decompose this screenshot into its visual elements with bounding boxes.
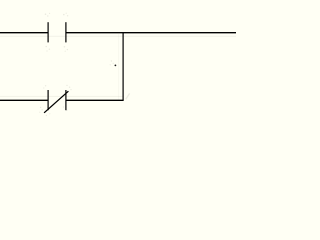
contact (normally closed), branch rung (44, 90, 68, 113)
contact (normally open), top rung (48, 22, 66, 42)
wire: top rung, NO contact to right edge (66, 32, 236, 34)
insertion point marker (small dot left of branch wire) (115, 65, 117, 67)
wire: top rung, left rail to NO contact (0, 32, 48, 34)
wire: branch rung, NC contact to vertical branch junction (66, 99, 123, 101)
wire: branch rung, left rail to NC contact (0, 99, 48, 101)
wire: vertical branch from top rung down to branch rung (122, 33, 124, 101)
